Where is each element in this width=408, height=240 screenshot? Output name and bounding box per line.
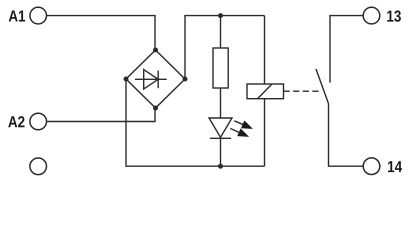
wire relay coil to bottom rail <box>264 99 266 167</box>
terminal A2 <box>30 113 47 130</box>
label A2 <box>8 116 24 127</box>
LED D2 <box>209 118 232 138</box>
wire contact to terminal 14 <box>329 104 364 167</box>
label 14 <box>388 161 402 172</box>
wire top rail to relay coil <box>264 16 266 84</box>
LED emission arrow lower <box>230 129 248 137</box>
LED emission arrow upper <box>234 121 252 129</box>
diode inside bridge <box>135 70 167 89</box>
relay coil K1 <box>247 84 284 99</box>
junction dot bridge left vertex <box>124 77 129 82</box>
wire resistor to LED <box>220 88 222 118</box>
wire LED to bottom rail <box>220 138 222 166</box>
junction dot bottom rail <box>218 164 223 169</box>
terminal 13 <box>363 7 380 24</box>
junction dot bridge bottom vertex <box>153 106 158 111</box>
mechanical link (dashed) <box>284 90 321 92</box>
terminal A1 <box>30 7 47 24</box>
junction dot bridge right vertex <box>183 77 188 82</box>
contact blade (NO switch) <box>316 69 329 104</box>
wire A2 to bridge bottom <box>47 108 155 122</box>
wire top rail to resistor <box>220 16 222 48</box>
unlabeled terminal (bottom left) <box>30 158 47 175</box>
resistor R1 <box>213 48 228 88</box>
wire terminal 13 to contact <box>330 16 363 83</box>
terminal 14 <box>363 158 380 175</box>
wire A1 to bridge top <box>47 16 155 50</box>
label A1 <box>9 10 25 21</box>
junction dot bridge top vertex <box>153 48 158 53</box>
bridge rectifier D1 (diamond) <box>126 50 185 108</box>
wire bridge plus to top rail <box>185 16 265 79</box>
bottom rail (bridge minus) <box>126 79 265 166</box>
label 13 <box>387 10 401 21</box>
junction dot top rail <box>218 13 223 18</box>
